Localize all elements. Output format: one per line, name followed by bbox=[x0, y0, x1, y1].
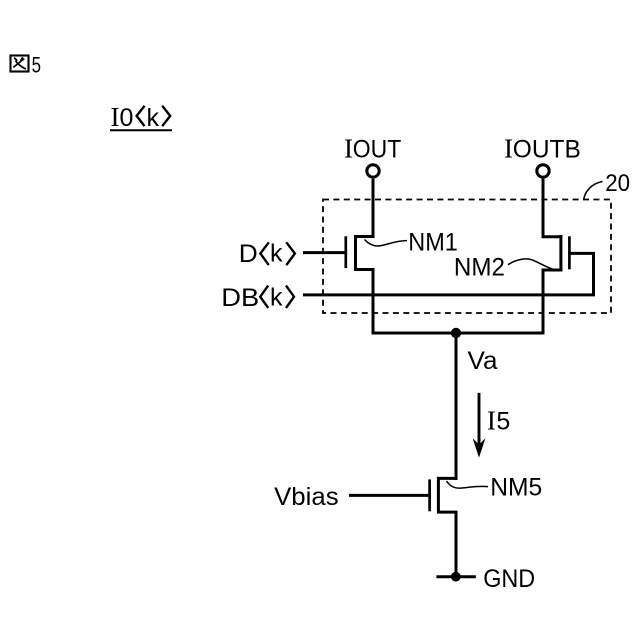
svg-text:k: k bbox=[270, 240, 283, 268]
svg-text:I: I bbox=[344, 134, 353, 164]
svg-text:OUTB: OUTB bbox=[513, 135, 581, 163]
svg-text:Va: Va bbox=[468, 347, 498, 375]
svg-text:NM1: NM1 bbox=[408, 228, 458, 256]
svg-text:I: I bbox=[487, 405, 496, 435]
svg-text:OUT: OUT bbox=[353, 136, 402, 164]
svg-text:k: k bbox=[270, 283, 283, 311]
svg-text:I: I bbox=[504, 133, 513, 163]
svg-text:5: 5 bbox=[496, 407, 510, 435]
svg-text:k: k bbox=[147, 104, 160, 132]
svg-text:Vbias: Vbias bbox=[274, 483, 339, 511]
svg-text:NM2: NM2 bbox=[454, 254, 505, 282]
svg-text:5: 5 bbox=[32, 53, 41, 78]
svg-text:DB: DB bbox=[221, 284, 259, 312]
svg-text:GND: GND bbox=[483, 565, 535, 593]
svg-text:20: 20 bbox=[605, 170, 630, 197]
svg-text:I: I bbox=[111, 102, 120, 132]
svg-text:0: 0 bbox=[120, 104, 134, 132]
svg-text:D: D bbox=[239, 240, 258, 268]
svg-text:NM5: NM5 bbox=[490, 474, 542, 502]
